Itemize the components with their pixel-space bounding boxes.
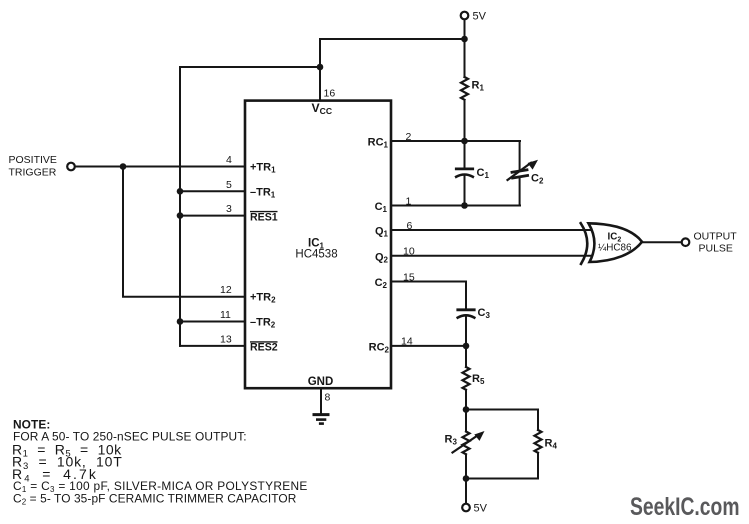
svg-text:¼HC86: ¼HC86 [598,241,632,253]
wire 5V to R1 top [464,20,466,78]
node: -TR2 junction [177,318,184,325]
capacitor C3 [458,282,475,346]
svg-text:3: 3 [226,203,232,215]
resistor R5 [463,346,470,410]
wire RES2 pin 13 [180,345,245,347]
wire -TR1 pin 5 [180,190,245,192]
wire C1 pin 1 [391,205,520,207]
svg-text:SeekIC.com: SeekIC.com [630,493,740,521]
wire -TR2 pin 11 [180,321,245,323]
variable resistor R3 [453,410,485,479]
svg-text:5V: 5V [473,11,487,23]
svg-text:C2: C2 [531,173,544,186]
svg-text:RC1: RC1 [368,137,389,150]
svg-text:RC2: RC2 [369,341,390,354]
svg-text:C2 = 5- TO 35-pF CERAMIC TRIMM: C2 = 5- TO 35-pF CERAMIC TRIMMER CAPACIT… [13,491,297,506]
wire RES1 pin 3 [180,215,245,217]
5V terminal (top) [461,12,469,20]
svg-text:+TR1: +TR1 [250,162,276,175]
node: RES1 junction [177,212,184,219]
svg-text:PULSE: PULSE [699,243,733,255]
svg-text:R4: R4 [545,438,558,451]
5V terminal (bottom) [462,504,470,512]
node: RC2 node [463,343,470,350]
svg-text:POSITIVE: POSITIVE [9,154,57,166]
svg-text:Q2: Q2 [375,251,389,264]
trimmer capacitor C2 [508,141,539,206]
wire R1 to RC1 node [464,100,466,141]
wire C2' pin 15 [391,281,466,283]
resistor R4 [535,410,542,479]
svg-text:1: 1 [406,195,412,207]
capacitor C1 [456,141,473,206]
svg-text:14: 14 [401,336,413,348]
svg-text:–TR1: –TR1 [250,186,276,199]
POSITIVE TRIGGER input terminal [67,163,75,171]
svg-text:+TR2: +TR2 [250,292,276,305]
wire top of R3/R4 pair [466,409,538,411]
svg-text:10: 10 [403,246,415,258]
XOR gate IC2 1/4HC86 [581,223,642,264]
node: R3/R4 bottom junction [463,475,470,482]
resistor R1 [461,77,468,100]
svg-text:13: 13 [220,333,232,345]
text: NOTE block [12,418,308,507]
svg-text:TRIGGER: TRIGGER [9,167,57,179]
svg-text:C3: C3 [478,307,491,320]
svg-text:16: 16 [324,88,336,100]
wire Q2 pin 10 to XOR [391,255,592,257]
wire 5V rail to Vcc [320,38,465,40]
node: trigger junction [120,163,127,170]
wire Q1 pin 6 to XOR [391,229,592,231]
OUTPUT PULSE terminal [682,238,690,246]
wire left bus vertical x180 [179,67,181,346]
node: -TR1 junction [177,188,184,195]
svg-text:5V: 5V [474,503,488,515]
svg-text:OUTPUT: OUTPUT [694,231,738,243]
wire GND pin 8 [320,388,322,414]
node: junction at x320 y67 [317,64,324,71]
svg-text:4: 4 [226,154,232,166]
wire trigger branch down to +TR2 [123,167,245,297]
wire trigger to +TR1 pin 4 [75,166,245,168]
svg-text:R5: R5 [472,373,485,386]
svg-text:12: 12 [220,284,232,296]
node: junction 5V rail [461,36,468,43]
svg-text:C2: C2 [375,277,388,290]
wire Vcc pin 16 vertical [319,39,321,101]
node: R5/R3 junction [463,406,470,413]
wire RC1 pin 2 [391,140,520,142]
IC U1 HC4538 body [245,101,391,389]
svg-text:VCC: VCC [312,101,333,116]
svg-text:HC4538: HC4538 [295,249,337,261]
svg-text:Q1: Q1 [375,226,389,239]
svg-text:C1: C1 [375,201,388,214]
node: C1 node [461,202,468,209]
svg-text:R3: R3 [445,434,458,447]
svg-text:2: 2 [406,131,412,143]
wire XOR output [642,241,681,243]
svg-text:15: 15 [403,271,415,283]
wire bottom of R3/R4 pair [466,478,538,480]
svg-text:11: 11 [220,309,231,321]
wire y67 to left bus [180,66,320,68]
wire down to 5V bottom [465,479,467,504]
svg-text:RES1: RES1 [250,211,278,223]
svg-text:GND: GND [308,376,334,388]
svg-text:C1: C1 [477,167,490,180]
svg-text:RES2: RES2 [250,342,278,354]
svg-text:R1: R1 [472,80,485,93]
ground [314,415,328,424]
svg-text:6: 6 [407,220,413,232]
svg-text:5: 5 [226,179,232,191]
node: RC1 node [461,138,468,145]
svg-text:8: 8 [325,392,331,404]
svg-text:–TR2: –TR2 [250,317,276,330]
wire RC2 pin 14 [391,345,466,347]
